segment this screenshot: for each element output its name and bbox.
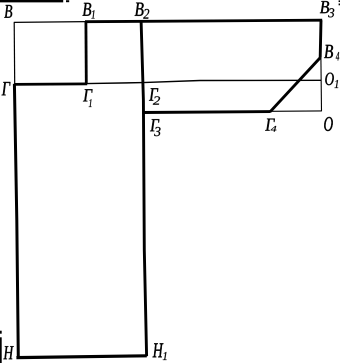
node О1 (325, 73, 338, 88)
node Г4 (265, 119, 276, 132)
edge bar (thick border mark top-left) (0, 0, 69, 2)
node В2 (135, 3, 149, 19)
wire Н-Н1 thick bottom line (16, 356, 146, 358)
node В3 (320, 1, 334, 17)
node Г3 (150, 119, 160, 136)
wire В2-Н1 thick long vertical (141, 21, 147, 356)
wire Г-Г1 thick (14, 83, 87, 86)
wire Г4-О thin (271, 110, 322, 112)
edge dashes top-right (339, 1, 340, 4)
wire В4-О thin right vertical (320, 58, 323, 112)
wire Г-Н thick left vertical (14, 84, 18, 358)
node О (324, 117, 333, 131)
node Н1 (153, 343, 167, 360)
wire Г4-В4 thick diagonal (270, 58, 320, 112)
wire В3-В4 thick right vertical (319, 20, 323, 57)
node В1 (82, 3, 94, 19)
node В (4, 5, 12, 18)
node Г2 (149, 88, 160, 104)
node Н (3, 346, 13, 359)
wire В1-Г1 thick vertical (85, 22, 88, 84)
node Г (2, 82, 11, 95)
wire В-В1 thin top line (14, 21, 86, 24)
wire Г3-Г4 thick (142, 110, 270, 114)
wire Г1-О1 thin long horizontal (87, 80, 322, 83)
edge marks left near Н (0, 332, 2, 363)
wire В1-В3 thick top line (85, 20, 322, 22)
wire В-Г thin left vertical (13, 22, 16, 84)
node Г1 (83, 89, 93, 107)
node В4 (324, 45, 339, 61)
